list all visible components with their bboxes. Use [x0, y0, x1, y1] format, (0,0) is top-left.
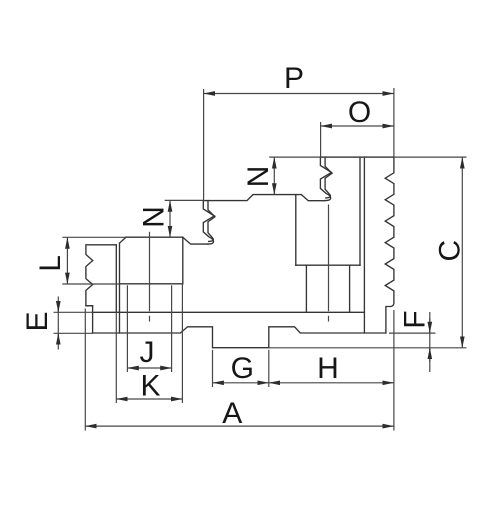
svg-text:E: E: [21, 311, 54, 331]
svg-text:K: K: [140, 370, 160, 403]
N left extension line: [165, 199, 204, 201]
C dimension line: [461, 157, 463, 348]
svg-text:N: N: [242, 166, 275, 188]
left master jaw top plateau: [126, 236, 183, 238]
G/H shared extension line: [268, 350, 270, 387]
svg-text:L: L: [34, 255, 67, 272]
svg-text:N: N: [138, 206, 171, 228]
L label: [34, 255, 67, 272]
L top extension line: [62, 236, 126, 238]
svg-text:J: J: [140, 336, 155, 369]
G dimension line: [213, 382, 269, 384]
E dimension line with outside arrows: [57, 297, 59, 350]
K right extension line: [181, 284, 183, 403]
J right extension line: [171, 285, 173, 372]
E top extension line: [54, 311, 94, 313]
K dimension line: [116, 398, 182, 400]
N left dimension line: [169, 200, 171, 237]
K label: [140, 370, 160, 403]
O label: [348, 96, 371, 129]
right jaw serrated right edge with 6 teeth and bottom step: [385, 157, 394, 333]
A label: [222, 397, 242, 430]
J label: [140, 336, 155, 369]
E bottom extension line: [54, 332, 94, 334]
left master jaw bottom edge: [120, 283, 183, 285]
left jaw block serrated outer edge with 2 gripping teeth: [86, 245, 116, 333]
A dimension line: [85, 425, 394, 427]
P and O dimension extension line right: [393, 88, 395, 157]
right jaw serrated profile outer line: [320, 157, 331, 201]
F dimension line with outside arrows: [429, 312, 431, 372]
G label: [231, 352, 254, 385]
J dimension line: [127, 367, 171, 369]
L bottom extension line: [62, 283, 119, 285]
O dimension line: [321, 125, 394, 127]
right guideway inner vertical: [359, 157, 361, 265]
left master jaw top chamfer: [120, 237, 127, 243]
N right label: [242, 166, 275, 188]
P label: [284, 62, 304, 95]
right jaw tenon left wall: [305, 265, 307, 312]
right jaw top surface: [321, 156, 394, 158]
C label: [434, 240, 467, 262]
svg-text:P: P: [284, 62, 304, 95]
P dimension extension line left: [203, 89, 205, 200]
A and H right extension line: [393, 310, 395, 431]
O dimension extension line left: [320, 122, 322, 157]
F label: [399, 310, 432, 328]
N right extension + C top extension line: [269, 156, 466, 158]
svg-text:O: O: [348, 96, 371, 129]
E label: [21, 311, 54, 331]
left jaw step ledge: [86, 305, 93, 307]
C bottom extension line: [269, 347, 467, 349]
right screw centerline: [328, 205, 330, 322]
left jaw block right edge: [115, 245, 117, 312]
N right dimension line: [273, 157, 275, 195]
left master jaw inner wall: [119, 243, 121, 333]
G left extension line: [212, 350, 214, 387]
right jaw tenon right wall: [349, 265, 351, 312]
H dimension line: [269, 382, 394, 384]
left master jaw right wall: [182, 237, 184, 284]
P dimension line: [204, 93, 394, 95]
K left extension line: [115, 312, 117, 403]
center column right wall: [295, 195, 297, 266]
right jaw serrated profile inner line: [325, 157, 332, 198]
center column relief groove: [183, 237, 208, 244]
A left extension line: [84, 309, 86, 431]
center column serrated profile inner line: [208, 201, 215, 242]
N left label: [138, 206, 171, 228]
J left extension line: [126, 285, 128, 372]
F top extension line: [389, 332, 435, 334]
svg-text:H: H: [317, 352, 339, 385]
chuck body top face line: [93, 311, 365, 313]
svg-text:A: A: [222, 397, 242, 430]
left screw centerline: [149, 232, 151, 322]
L dimension line: [66, 237, 68, 284]
right jaw block bottom edge: [296, 264, 360, 266]
H label: [317, 352, 339, 385]
chuck body bottom profile with central boss: [93, 327, 386, 348]
center column top surface: [203, 195, 325, 201]
center column serrated profile outer line: [203, 201, 214, 245]
right guideway outer vertical: [363, 157, 365, 333]
svg-text:C: C: [434, 240, 467, 262]
svg-text:G: G: [231, 352, 254, 385]
svg-text:F: F: [399, 310, 432, 328]
